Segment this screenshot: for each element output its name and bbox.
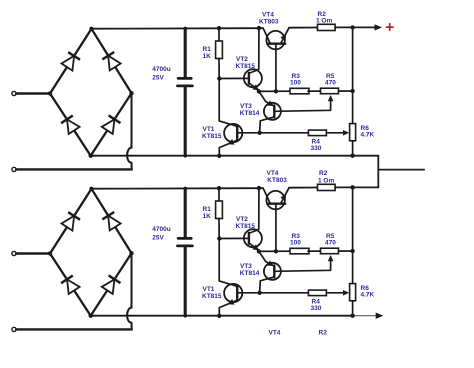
junction R1 to + rail (upper section) bbox=[217, 26, 221, 30]
node VT2 emitter/VT3 emitter (lower section) bbox=[257, 249, 261, 253]
potentiometer R6 (upper section) bbox=[350, 124, 356, 141]
transistor VT4 emitter arrow (upper section) bbox=[280, 34, 286, 41]
transistor VT2 emitter arrow (upper section) bbox=[252, 84, 259, 90]
transistor VT1 base bar (upper section) bbox=[236, 126, 238, 141]
potentiometer R6 (lower section) bbox=[350, 284, 356, 301]
capacitor C1 top plate (lower section) bbox=[178, 237, 191, 240]
transistor VT2 emitter arrow (lower section) bbox=[252, 244, 259, 250]
wire R3 to R5 (upper section) bbox=[308, 90, 321, 92]
input terminal X1b bbox=[12, 167, 16, 171]
wire bridge left-top side (lower section) bbox=[50, 189, 92, 254]
wire - rail (lower section) bbox=[91, 315, 353, 317]
svg-text:4700u: 4700u bbox=[152, 66, 170, 73]
node VT2 emitter/VT3 emitter (upper section) bbox=[257, 89, 261, 93]
transistor VT3 base bar (upper section) bbox=[273, 105, 275, 117]
node bridge + (upper section) bbox=[89, 27, 93, 31]
wire bridge left-bottom side (upper section) bbox=[50, 94, 91, 156]
wire bridge left-bottom side (lower section) bbox=[50, 254, 91, 316]
transistor VT3 base lead to R5 wiper (upper section) bbox=[275, 97, 331, 111]
svg-text:100: 100 bbox=[290, 80, 301, 87]
transistor VT2 circle (upper section) bbox=[244, 69, 262, 87]
potentiometer R6 wiper arrow (lower section) bbox=[343, 290, 349, 296]
node bridge AC right (upper section) bbox=[129, 91, 133, 95]
junction cap to - rail (lower section) bbox=[183, 314, 187, 318]
junction VT2 collector to + rail (upper section) bbox=[257, 26, 261, 30]
capacitor C1 bottom lead (upper section) bbox=[184, 87, 187, 155]
svg-text:VT1: VT1 bbox=[203, 126, 215, 133]
node VT4 base (upper section) bbox=[274, 89, 278, 93]
wire bridge left-top side (upper section) bbox=[50, 29, 92, 94]
svg-text:KT803: KT803 bbox=[259, 18, 279, 25]
svg-text:4.7K: 4.7K bbox=[361, 291, 375, 298]
wire terminal X1a to bridge left node bbox=[16, 92, 50, 94]
wire terminal X2b to bridge right-node drop bbox=[16, 328, 132, 330]
wire terminal X1b to bridge right-node drop bbox=[16, 168, 132, 170]
transistor VT3 collector (upper section) bbox=[260, 117, 275, 133]
transistor VT1 collector (upper section) bbox=[219, 79, 237, 127]
wire VT2/VT3 emitter node to R3 (lower section) bbox=[259, 250, 290, 252]
resistor R3 (lower section) bbox=[290, 248, 309, 254]
wire - rail output lead (lower section) bbox=[353, 315, 377, 317]
svg-text:1 Om: 1 Om bbox=[316, 18, 332, 25]
transistor VT1 base bar (lower section) bbox=[236, 286, 238, 301]
svg-text:1K: 1K bbox=[203, 213, 212, 220]
svg-text:KT815: KT815 bbox=[202, 133, 222, 140]
arrow - output (lower section) bbox=[376, 313, 384, 319]
junction R2 output to feedback rail (upper section) bbox=[350, 25, 354, 29]
transistor VT2 base lead (lower section) bbox=[219, 237, 249, 239]
transistor VT2 base bar (lower section) bbox=[248, 233, 250, 244]
svg-text:KT814: KT814 bbox=[240, 110, 260, 117]
junction R5 to output rail (lower section) bbox=[350, 249, 354, 253]
svg-text:R2: R2 bbox=[319, 330, 328, 337]
svg-text:330: 330 bbox=[311, 305, 322, 312]
junction VT2 collector to + rail (lower section) bbox=[257, 186, 261, 190]
diode VD2 (lower section) (bridge right-top, pointing to +) bbox=[108, 216, 121, 231]
node bridge AC left (upper section) bbox=[48, 91, 52, 95]
wire bridge bottom-right side (lower section) bbox=[91, 253, 132, 316]
transistor VT1 collector (lower section) bbox=[219, 239, 237, 287]
node bridge AC left (lower section) bbox=[48, 251, 52, 255]
transistor VT4 circle (upper section) bbox=[266, 31, 284, 49]
svg-text:KT815: KT815 bbox=[236, 63, 256, 70]
svg-text:KT815: KT815 bbox=[202, 293, 222, 300]
capacitor C1 bottom plate (upper section) bbox=[178, 85, 193, 88]
wire common link vertical (upper - rail to lower + output) bbox=[377, 156, 379, 188]
potentiometer R5 (upper section) bbox=[321, 88, 339, 94]
transistor VT2 emitter (upper section) bbox=[249, 83, 260, 91]
node VT4 base (lower section) bbox=[274, 249, 278, 253]
capacitor C1 top lead (upper section) bbox=[184, 29, 187, 78]
wire R3 to R5 (lower section) bbox=[308, 250, 321, 252]
resistor R2 (upper section) bbox=[318, 24, 336, 30]
node VT1 base/VT3 collector (upper section) bbox=[257, 131, 261, 135]
wire VT2/VT3 emitter node to R3 (upper section) bbox=[259, 90, 290, 92]
diode VD1 (upper section) (bridge left-top, pointing to +) bbox=[62, 56, 75, 71]
wire + rail (upper section) bbox=[92, 27, 259, 30]
wire VT4 emitter to R2 (lower section) bbox=[289, 187, 318, 189]
transistor VT4 emitter (lower section) bbox=[281, 188, 289, 204]
svg-text:100: 100 bbox=[290, 240, 301, 247]
svg-text:470: 470 bbox=[325, 79, 336, 86]
wire output rail upper (lower section) bbox=[352, 187, 354, 251]
diode VD1 (lower section) (bridge left-top, pointing to +) bbox=[62, 216, 75, 231]
svg-text:KT814: KT814 bbox=[240, 270, 260, 277]
junction VT1 emitter to - rail (upper section) bbox=[217, 154, 221, 158]
wire R5 to output rail (upper section) bbox=[339, 90, 353, 92]
wire R4 to R6 wiper (lower section) bbox=[326, 292, 343, 294]
junction cap to + rail (lower section) bbox=[183, 187, 187, 191]
svg-text:25V: 25V bbox=[152, 235, 164, 242]
resistor R4 (upper section) bbox=[308, 130, 326, 136]
diode VD4 (upper section) (bridge bottom-right) bbox=[102, 119, 115, 134]
junction lower R2 output to common link bbox=[350, 185, 354, 189]
input terminal X2b bbox=[12, 327, 16, 331]
wire common output lead bbox=[378, 169, 424, 171]
wire R2 to common link (lower section) bbox=[335, 186, 378, 188]
resistor R1 bottom lead (lower section) bbox=[218, 219, 220, 239]
resistor R1 bottom lead (upper section) bbox=[218, 59, 220, 79]
junction R2 output to feedback rail (lower section) bbox=[350, 185, 354, 189]
transistor VT1 circle (lower section) bbox=[224, 284, 242, 302]
junction cap to - rail (upper section) bbox=[183, 154, 187, 158]
wire terminal X2a to bridge left node bbox=[16, 252, 50, 254]
transistor VT1 base lead (upper section) bbox=[237, 132, 259, 134]
wire + rail (lower section) bbox=[92, 187, 259, 190]
transistor VT4 emitter (upper section) bbox=[281, 28, 289, 44]
wire bridge bottom-right side (upper section) bbox=[91, 93, 132, 156]
node R1/VT2 base/VT1 collector (lower section) bbox=[217, 236, 221, 240]
transistor VT2 base bar (upper section) bbox=[248, 73, 250, 84]
resistor R1 (upper section) bbox=[216, 41, 223, 59]
wire + rail stub to VT4 collector (upper section) bbox=[259, 27, 263, 29]
capacitor C1 bottom lead (lower section) bbox=[184, 247, 187, 315]
svg-text:470: 470 bbox=[325, 239, 336, 246]
node bridge - (lower section) bbox=[89, 314, 93, 318]
wire bridge right node drop with hop (lower section) bbox=[127, 253, 132, 329]
transistor VT3 emitter (lower section) bbox=[259, 251, 274, 266]
potentiometer R5 wiper arrow (upper section) bbox=[328, 95, 334, 101]
transistor VT4 base lead (lower section) bbox=[275, 204, 277, 252]
svg-text:KT803: KT803 bbox=[267, 177, 287, 184]
input terminal X2a bbox=[12, 251, 16, 255]
diode VD2 (upper section) (bridge right-top, pointing to +) bbox=[108, 56, 121, 71]
transistor VT1 emitter arrow (upper section) bbox=[228, 139, 235, 145]
resistor R1 (lower section) bbox=[216, 201, 223, 219]
svg-text:330: 330 bbox=[311, 145, 322, 152]
junction R1 to + rail (lower section) bbox=[217, 186, 221, 190]
diode VD3 (lower section) (bridge bottom-left) bbox=[67, 279, 80, 294]
transistor VT2 collector (lower section) bbox=[249, 188, 259, 233]
transistor VT1 emitter arrow (lower section) bbox=[228, 299, 235, 305]
wire R5 to output rail (lower section) bbox=[339, 250, 353, 252]
wire R4 to R6 wiper (upper section) bbox=[326, 132, 343, 134]
svg-text:4700u: 4700u bbox=[152, 226, 170, 233]
svg-text:1 Om: 1 Om bbox=[318, 178, 334, 185]
junction VT1 emitter to - rail (lower section) bbox=[217, 314, 221, 318]
transistor VT4 base bar (lower section) bbox=[267, 202, 285, 204]
transistor VT3 emitter arrow (pnp, into base) (upper section) bbox=[267, 100, 274, 106]
potentiometer R5 wiper arrow (lower section) bbox=[328, 255, 334, 261]
resistor R4 (lower section) bbox=[308, 290, 326, 296]
wire - rail (upper section) bbox=[91, 155, 379, 157]
wire bridge top-right side (upper section) bbox=[92, 29, 132, 93]
transistor VT3 emitter arrow (pnp, into base) (lower section) bbox=[267, 260, 274, 266]
transistor VT4 base lead (upper section) bbox=[275, 44, 277, 92]
potentiometer R5 (lower section) bbox=[321, 248, 339, 254]
capacitor C1 top lead (lower section) bbox=[184, 189, 187, 238]
capacitor C1 bottom plate (lower section) bbox=[178, 244, 193, 247]
transistor VT3 circle (lower section) bbox=[264, 263, 281, 280]
node bridge AC right (lower section) bbox=[129, 251, 133, 255]
transistor VT1 circle (upper section) bbox=[224, 124, 242, 142]
svg-text:KT815: KT815 bbox=[236, 223, 256, 230]
diode VD4 (lower section) (bridge bottom-right) bbox=[102, 279, 115, 294]
svg-text:VT4: VT4 bbox=[269, 330, 281, 337]
resistor R1 top lead (upper section) bbox=[218, 28, 220, 41]
transistor VT3 base lead to R5 wiper (lower section) bbox=[275, 257, 331, 271]
arrow + output (upper section) bbox=[375, 24, 383, 30]
transistor VT3 base bar (lower section) bbox=[273, 265, 275, 277]
svg-text:25V: 25V bbox=[152, 75, 164, 82]
transistor VT4 circle (lower section) bbox=[266, 191, 284, 209]
wire output rail to R6 (lower section) bbox=[352, 251, 354, 284]
wire output rail to R6 (upper section) bbox=[352, 91, 354, 124]
transistor VT4 collector (upper section) bbox=[263, 28, 270, 43]
resistor R6 bottom lead (lower section) bbox=[352, 301, 354, 316]
transistor VT4 collector (lower section) bbox=[263, 188, 270, 203]
transistor VT2 circle (lower section) bbox=[244, 229, 262, 247]
resistor R6 bottom lead (upper section) bbox=[352, 141, 354, 156]
capacitor C1 top plate (upper section) bbox=[178, 77, 191, 80]
junction cap to + rail (upper section) bbox=[183, 27, 187, 31]
wire R2 to + output (upper section) bbox=[335, 26, 375, 28]
potentiometer R6 wiper arrow (upper section) bbox=[343, 130, 349, 136]
transistor VT3 collector (lower section) bbox=[260, 277, 275, 293]
junction R5 to output rail (upper section) bbox=[350, 89, 354, 93]
input terminal X1a bbox=[12, 91, 16, 95]
transistor VT1 emitter (upper section) bbox=[219, 140, 237, 156]
transistor VT3 emitter (upper section) bbox=[259, 91, 274, 106]
transistor VT1 base lead (lower section) bbox=[237, 292, 259, 294]
resistor R1 top lead (lower section) bbox=[218, 188, 220, 201]
transistor VT2 emitter (lower section) bbox=[249, 243, 260, 251]
svg-text:VT1: VT1 bbox=[203, 286, 215, 293]
wire output rail upper (upper section) bbox=[352, 27, 354, 91]
wire node to R4 (upper section) bbox=[260, 132, 309, 134]
transistor VT2 collector (upper section) bbox=[249, 28, 259, 73]
node VT1 base/VT3 collector (lower section) bbox=[257, 291, 261, 295]
transistor VT1 emitter (lower section) bbox=[219, 300, 237, 316]
svg-text:1K: 1K bbox=[203, 53, 212, 60]
junction R6 to - rail (lower section) bbox=[350, 314, 354, 318]
svg-text:R2: R2 bbox=[319, 170, 328, 177]
node bridge + (lower section) bbox=[89, 187, 93, 191]
node bridge - (upper section) bbox=[89, 154, 93, 158]
wire bridge right node drop with hop (upper section) bbox=[127, 93, 132, 169]
junction R6 to - rail (upper section) bbox=[350, 154, 354, 158]
transistor VT3 circle (upper section) bbox=[264, 103, 281, 120]
wire + rail stub to VT4 collector (lower section) bbox=[259, 187, 263, 189]
transistor VT4 base bar (upper section) bbox=[267, 43, 285, 45]
transistor VT2 base lead (upper section) bbox=[219, 77, 249, 79]
resistor R3 (upper section) bbox=[290, 88, 309, 94]
transistor VT4 emitter arrow (lower section) bbox=[280, 194, 286, 201]
resistor R2 (lower section) bbox=[318, 184, 336, 190]
wire node to R4 (lower section) bbox=[260, 292, 309, 294]
node R1/VT2 base/VT1 collector (upper section) bbox=[217, 76, 221, 80]
wire VT4 emitter to R2 (upper section) bbox=[289, 27, 318, 29]
diode VD3 (upper section) (bridge bottom-left) bbox=[67, 119, 80, 134]
svg-text:4.7K: 4.7K bbox=[361, 131, 375, 138]
wire bridge top-right side (lower section) bbox=[92, 189, 132, 253]
label + output (red) bbox=[386, 24, 393, 31]
